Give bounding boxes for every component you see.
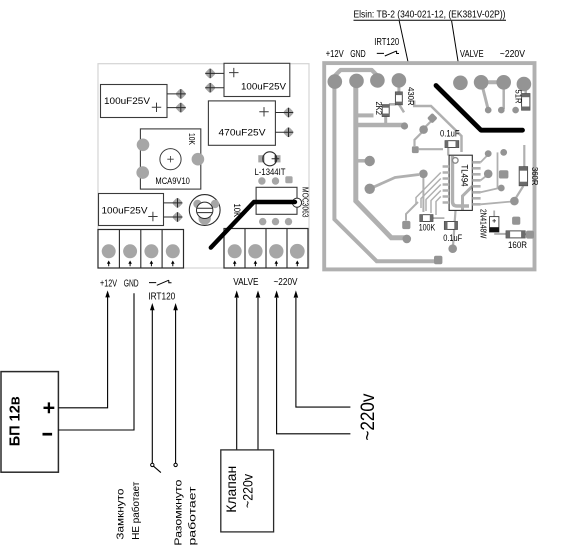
resistor 2K2 <box>374 101 389 116</box>
trace chip bottom down <box>453 210 456 246</box>
wire IRT120 left <box>151 310 153 463</box>
pad big TL4 <box>392 73 407 88</box>
trace diode top stub <box>493 211 495 217</box>
trace stub to pad L1 <box>358 159 366 163</box>
capacitor C4 100uF25V <box>99 194 164 226</box>
trace 2K2 bottom via <box>384 117 387 126</box>
svg-text:MOC3063: MOC3063 <box>301 187 311 218</box>
svg-text:360R: 360R <box>530 167 539 186</box>
trace right side vertical <box>497 152 499 188</box>
svg-text:2K2: 2K2 <box>374 101 383 115</box>
resistor 51R <box>514 90 530 111</box>
via circle <box>419 125 428 134</box>
pointer line 2 <box>452 21 460 72</box>
pad L2 <box>365 184 375 194</box>
trace via square to chip fan <box>406 202 418 221</box>
pad C2-2 <box>204 82 224 94</box>
trace pad mid down to 100K row <box>422 178 424 212</box>
switch contact left <box>151 463 154 466</box>
svg-text:БП 12в: БП 12в <box>8 396 24 446</box>
jumper wire thick right board <box>436 86 523 131</box>
board outline left PCB <box>98 64 309 268</box>
wire IRT120 right <box>175 310 177 463</box>
pad mid <box>419 170 428 179</box>
wire ~220V left <box>277 298 351 434</box>
trace TR pad2 diagonal <box>482 83 489 110</box>
pad big TL2 <box>349 74 364 89</box>
switch symbol IRT120 right <box>377 51 399 56</box>
terminal block X2 <box>224 229 308 269</box>
pad big TL3 <box>370 73 385 88</box>
pad L1 <box>365 156 375 166</box>
square pad bottom <box>434 256 442 264</box>
trace diag to chip top <box>414 101 461 153</box>
via square bottom 100K <box>402 221 410 229</box>
potentiometer 10K <box>189 195 242 226</box>
arrowhead +12V <box>105 290 110 297</box>
arrowhead VALVE right <box>256 290 261 297</box>
pad mid small <box>401 122 408 129</box>
svg-text:Разомкнуто: Разомкнуто <box>174 479 185 546</box>
pad ring2 end <box>403 235 412 244</box>
svg-text:51R: 51R <box>514 90 523 104</box>
arrowhead ~220V left <box>274 290 279 297</box>
switch contact right <box>174 463 177 466</box>
trace ring2 from GND pad <box>356 82 406 238</box>
wire +12V <box>58 293 107 408</box>
switch symbol IRT120 left <box>149 280 172 285</box>
IC pins right <box>472 162 480 204</box>
arrowhead IRT120 right <box>173 303 178 310</box>
optocoupler MOC3063 pads bottom <box>259 218 292 225</box>
svg-text:+12V: +12V <box>326 49 344 60</box>
trace TR3 down <box>502 89 505 109</box>
pointer line 1 <box>399 21 409 70</box>
pad bottom <box>448 244 457 253</box>
trace 51R bottom to 360R top <box>523 145 525 167</box>
trace 360R bottom to pad <box>515 186 524 200</box>
svg-text:160R: 160R <box>508 240 527 250</box>
trace ring1 from +12V pad <box>334 82 436 262</box>
trace 51R top <box>524 88 527 94</box>
svg-text:GND: GND <box>124 279 139 290</box>
pad C1-2 <box>167 102 187 114</box>
svg-text:100uF25V: 100uF25V <box>102 206 149 217</box>
resistor 430R <box>395 87 415 106</box>
via square <box>412 146 419 153</box>
trace connector 2K2 top to 430R bottom <box>389 103 396 106</box>
capacitor C1 100uF25V <box>101 85 168 118</box>
optocoupler MOC3063 body <box>256 187 311 218</box>
trace diode to 160R <box>494 233 506 235</box>
valve box Клапан <box>221 450 274 532</box>
svg-text:~220v: ~220v <box>240 474 256 508</box>
trace TR pads 2-3 <box>481 80 504 84</box>
trace pad to mid pad <box>370 175 419 189</box>
capacitor C3 470uF25V <box>208 101 275 145</box>
pad big TR4 <box>517 77 532 92</box>
pad BR2 <box>500 149 507 156</box>
svg-text:TL494: TL494 <box>460 165 470 187</box>
arrowhead VALVE left <box>234 290 239 297</box>
arrowhead ~220V right <box>294 290 299 297</box>
pad row under TR <box>485 107 492 114</box>
jumper wire thick left board <box>211 202 295 248</box>
svg-text:2N4148W: 2N4148W <box>479 209 489 239</box>
pad big TR1 <box>453 76 468 91</box>
pad big TL1 <box>328 74 343 89</box>
svg-text:470uF25V: 470uF25V <box>219 128 267 139</box>
pad BR3 <box>484 170 493 179</box>
svg-text:430R: 430R <box>406 87 415 106</box>
wire GND <box>58 293 134 430</box>
svg-text:~220V: ~220V <box>274 277 298 288</box>
switch lever <box>154 466 161 472</box>
svg-text:работает: работает <box>187 486 199 546</box>
svg-text:100uF25V: 100uF25V <box>241 82 287 93</box>
pad BR1 <box>485 150 492 157</box>
svg-text:НЕ работает: НЕ работает <box>130 481 142 539</box>
svg-text:10K: 10K <box>187 133 196 146</box>
pad BR4 <box>498 185 505 192</box>
resistor 360R <box>519 167 539 186</box>
svg-text:IRT120: IRT120 <box>374 37 399 48</box>
trace horiz from via square <box>419 148 443 150</box>
trace diamond to pad chain <box>415 120 433 147</box>
optocoupler MOC3063 pads top <box>258 176 292 184</box>
pad C2-1 <box>204 68 224 80</box>
pad C3-1 <box>275 107 294 119</box>
arrowhead IRT120 left <box>150 303 155 310</box>
wire ~220V right <box>296 298 351 407</box>
wire VALVE right <box>257 298 259 450</box>
label Elsin TB-2 <box>354 9 507 21</box>
pad C4-1 <box>164 197 184 209</box>
trace right pins to pads <box>481 155 512 205</box>
diode 2N4148W <box>479 209 499 239</box>
svg-text:0.1uF: 0.1uF <box>443 233 462 243</box>
svg-text:GND: GND <box>350 49 366 60</box>
pad C1-1 <box>167 88 187 100</box>
trace bottom of 2K2 row <box>358 123 404 128</box>
svg-text:+12V: +12V <box>100 279 117 290</box>
IC U1 TL494 <box>449 155 472 210</box>
svg-text:L-1344IT: L-1344IT <box>255 167 286 177</box>
trace stub mid-left <box>358 113 374 117</box>
diamond pad <box>427 113 438 124</box>
resistor 100K <box>419 215 436 233</box>
trace 160R right <box>525 233 528 235</box>
pad C4-2 <box>164 211 184 223</box>
trace loop pad1-pad3 top-left <box>334 70 377 82</box>
svg-text:100uF25V: 100uF25V <box>104 96 151 107</box>
svg-text:0.1uF: 0.1uF <box>440 129 460 139</box>
trace 100K to 0.1uF <box>433 217 445 219</box>
resistor 160R <box>506 231 527 250</box>
trace fan from chip left pins <box>416 173 441 216</box>
square pad BR <box>499 170 509 178</box>
power supply box БП 12в <box>1 372 58 473</box>
svg-text:~220v: ~220v <box>358 393 379 440</box>
IC pins left <box>443 167 450 203</box>
terminal block X1 <box>98 230 184 269</box>
capacitor C2 100uF25V <box>224 63 290 96</box>
svg-text:Elsin: TB-2 (340-021-12, (EK38: Elsin: TB-2 (340-021-12, (EK381V-02P)) <box>354 9 506 21</box>
wire VALVE left <box>236 298 238 450</box>
pad big TR2 <box>474 75 489 90</box>
trace 430R top <box>397 83 400 92</box>
pad C3-2 <box>275 127 294 139</box>
capacitor 0.1uF top <box>440 129 460 148</box>
trace 0.1uF down to chip <box>447 148 449 156</box>
svg-text:~220V: ~220V <box>500 49 525 60</box>
trace 430R bottom to pad <box>399 104 404 112</box>
board frame right PCB <box>324 63 534 269</box>
svg-text:MCA9V10: MCA9V10 <box>155 176 190 187</box>
svg-text:VALVE: VALVE <box>233 277 259 288</box>
pad BR5 <box>510 197 519 206</box>
square pad 160R right <box>526 231 534 239</box>
square pad diode top <box>512 217 520 225</box>
svg-text:VALVE: VALVE <box>460 49 484 60</box>
svg-text:Замкнуто: Замкнуто <box>116 488 127 540</box>
LED L-1344IT <box>255 152 286 177</box>
varistor MCA9V10 <box>136 129 204 189</box>
svg-text:IRT120: IRT120 <box>148 292 175 303</box>
svg-text:100K: 100K <box>419 222 436 232</box>
svg-text:Клапан: Клапан <box>223 466 239 513</box>
capacitor 0.1uF bottom <box>443 222 462 243</box>
pad big TR3 <box>496 75 511 90</box>
